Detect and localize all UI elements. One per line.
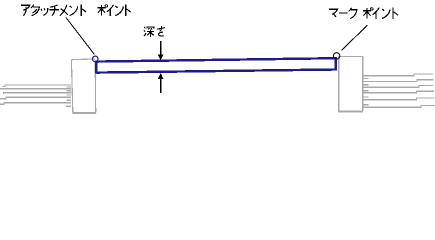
- board line L1: [3, 85, 72, 87]
- board line L2: [0, 88, 71, 90]
- beam left end cap: [95, 61, 97, 74]
- left post: [71, 59, 96, 113]
- left deck boards: [0, 85, 71, 106]
- board line R6: [363, 105, 435, 107]
- board line R1: [363, 74, 433, 76]
- board stub S2: [67, 90, 72, 92]
- label: マーク ポイント: [329, 8, 398, 19]
- mark point circle (right): [333, 53, 339, 59]
- label: アタッチメント ポイント: [21, 5, 131, 16]
- board stub T1: [363, 77, 368, 79]
- board line L5: [0, 103, 71, 104]
- leader line right: [342, 25, 368, 50]
- board stub S1: [67, 86, 72, 88]
- beam bottom edge: [96, 70, 335, 73]
- board stub S3: [67, 94, 72, 96]
- board stub S5: [66, 105, 71, 107]
- board stub T4: [363, 96, 368, 98]
- depth dimension lower arrow: [158, 73, 164, 93]
- depth dimension upper arrow: [158, 41, 164, 61]
- board line R3: [363, 85, 433, 87]
- leader line left: [66, 18, 94, 55]
- board line R4: [363, 91, 434, 93]
- attachment point circle (left): [92, 56, 98, 62]
- board line L4: [0, 97, 71, 98]
- board stub S4: [67, 99, 72, 101]
- right post: [338, 56, 363, 111]
- board stub T3: [363, 90, 368, 92]
- board stub T5: [363, 104, 368, 106]
- right deck boards: [363, 74, 435, 107]
- beam right end cap: [335, 57, 337, 70]
- board stub T2: [363, 84, 368, 86]
- board line L3: [4, 93, 72, 95]
- label: 深さ: [144, 26, 165, 37]
- beam top edge: [95, 58, 336, 61]
- board line R5: [363, 98, 434, 100]
- board line R2: [363, 80, 433, 82]
